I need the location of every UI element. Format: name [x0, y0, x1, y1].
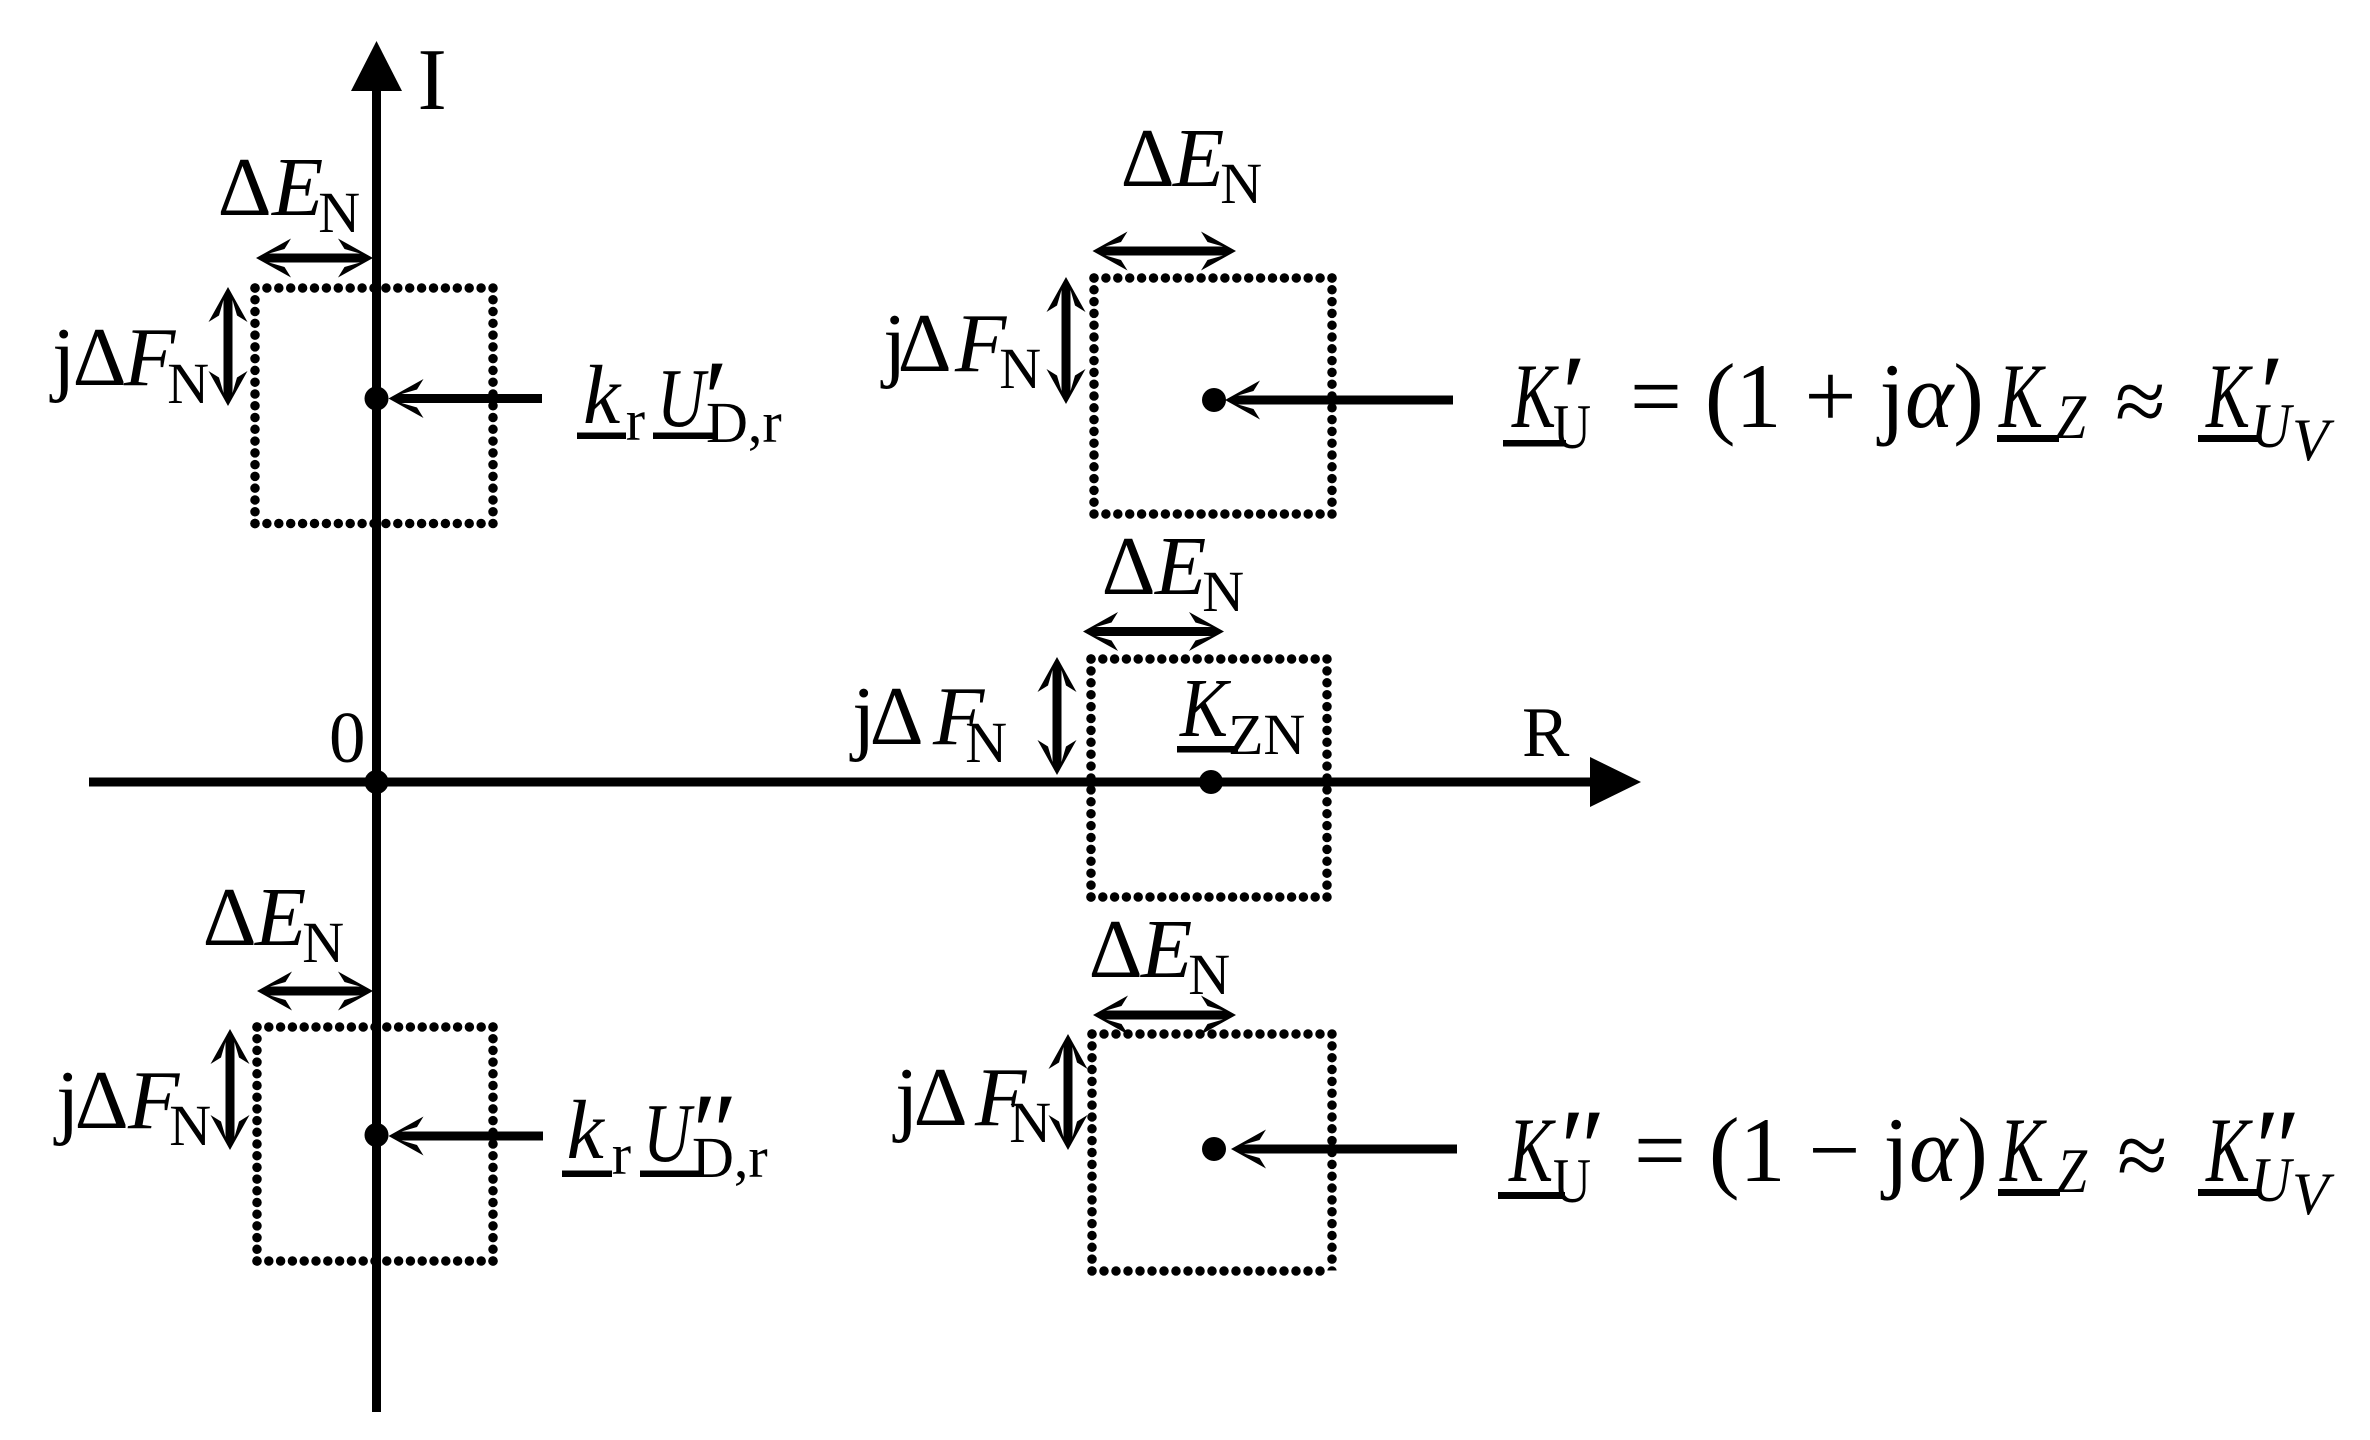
svg-text:N: N [167, 351, 209, 416]
j Delta F_N double arrow middle [1038, 657, 1077, 775]
svg-text:D,r: D,r [692, 1125, 768, 1190]
Delta E_N label middle [1102, 520, 1245, 624]
point k_r U''_D,r on I axis [365, 1123, 389, 1147]
svg-text:K: K [1511, 345, 1560, 447]
svg-text:Δ: Δ [914, 1051, 968, 1144]
svg-text:Z: Z [2057, 1135, 2088, 1206]
svg-text:U: U [2251, 390, 2294, 461]
leader arrow to top-left point [389, 379, 543, 418]
dotted box top-left [255, 288, 493, 524]
j Delta F_N double arrow top-middle [1047, 277, 1086, 404]
dotted box middle (K_ZN) [1091, 659, 1327, 897]
label K_ZN inside middle box [1177, 662, 1305, 767]
dotted box bottom-left [257, 1027, 493, 1261]
Delta E_N double arrow middle [1083, 612, 1224, 651]
j Delta F_N double arrow bottom-left [211, 1029, 250, 1150]
formula K'_U = (1 + j alpha) K_Z approx K'_UV [1503, 333, 2335, 473]
Delta E_N label top-left [218, 141, 361, 245]
svg-text:N: N [169, 1093, 211, 1158]
Delta E_N double arrow top-left [256, 239, 373, 278]
leader arrow to bottom-left point [389, 1117, 544, 1156]
svg-text:E: E [1140, 903, 1192, 996]
svg-text:Δ: Δ [1089, 903, 1143, 996]
svg-text:V: V [2292, 407, 2335, 473]
point k_r U'_D,r on I axis [365, 387, 389, 411]
svg-text:N: N [1202, 559, 1244, 624]
point K''_U [1202, 1137, 1226, 1161]
svg-text:U: U [1553, 1145, 1591, 1216]
j Delta F_N label bottom-left [53, 1054, 211, 1158]
svg-text:j: j [49, 311, 75, 404]
svg-text:N: N [302, 910, 344, 975]
svg-text:= (1 − jα): = (1 − jα) [1634, 1099, 1988, 1201]
svg-text:Δ: Δ [73, 311, 127, 404]
svg-text:N: N [1009, 1090, 1051, 1155]
Delta E_N double arrow bottom-middle [1093, 996, 1236, 1035]
svg-text:Z: Z [2056, 381, 2087, 452]
svg-text:= (1 + jα): = (1 + jα) [1630, 345, 1984, 447]
origin dot [365, 770, 389, 794]
svg-text:Δ: Δ [870, 670, 924, 763]
leader arrow to bottom-right point [1231, 1130, 1457, 1169]
point K'_U [1202, 388, 1226, 412]
j Delta F_N label top-middle [880, 297, 1041, 401]
svg-text:≈: ≈ [2115, 350, 2166, 452]
svg-text:r: r [626, 388, 645, 453]
svg-text:U: U [2251, 1144, 2294, 1215]
svg-text:E: E [1172, 112, 1224, 205]
Delta E_N label bottom-middle [1089, 903, 1231, 1007]
svg-text:N: N [318, 180, 360, 245]
svg-text:r: r [612, 1122, 631, 1187]
j Delta F_N double arrow top-left [209, 287, 248, 406]
Delta E_N double arrow bottom-left [257, 972, 373, 1011]
R axis (real axis) [89, 757, 1641, 807]
j Delta F_N label top-left [49, 311, 209, 416]
j Delta F_N double arrow bottom-right [1049, 1034, 1088, 1150]
dotted box bottom-right [1092, 1034, 1332, 1271]
svg-text:Δ: Δ [218, 141, 272, 234]
svg-text:U: U [657, 352, 709, 445]
svg-text:K: K [2205, 1099, 2254, 1201]
leader arrow to top-middle point [1225, 381, 1453, 420]
svg-text:U: U [1553, 391, 1591, 462]
j Delta F_N label middle [849, 670, 1007, 775]
svg-text:R: R [1522, 694, 1570, 772]
svg-text:K: K [1999, 1099, 2048, 1201]
svg-text:k: k [583, 349, 622, 442]
svg-text:ZN: ZN [1228, 702, 1305, 767]
svg-text:K: K [1998, 345, 2047, 447]
j Delta F_N label bottom-right [892, 1051, 1051, 1155]
svg-text:N: N [1188, 942, 1230, 1007]
svg-text:N: N [965, 710, 1007, 775]
svg-text:Δ: Δ [1102, 520, 1156, 613]
svg-text:Δ: Δ [1121, 112, 1175, 205]
label k_r U''_D,r [562, 1071, 768, 1193]
svg-text:E: E [254, 871, 306, 964]
svg-text:≈: ≈ [2117, 1104, 2168, 1206]
svg-text:K: K [1179, 662, 1231, 755]
svg-text:N: N [999, 336, 1041, 401]
label k_r U'_D,r [577, 338, 782, 460]
formula K''_U = (1 - j alpha) K_Z approx K''_UV [1498, 1087, 2335, 1227]
svg-text:I: I [418, 32, 447, 129]
Delta E_N double arrow top-middle [1093, 232, 1237, 271]
svg-text:V: V [2292, 1161, 2335, 1227]
svg-text:E: E [1154, 520, 1206, 613]
svg-text:0: 0 [329, 697, 366, 778]
svg-text:K: K [2205, 345, 2254, 447]
svg-text:K: K [1508, 1099, 1557, 1201]
I axis (imaginary axis) [351, 41, 402, 1412]
svg-text:k: k [567, 1084, 606, 1177]
svg-text:D,r: D,r [706, 390, 782, 455]
Delta E_N label bottom-left [203, 871, 345, 975]
svg-text:E: E [271, 141, 323, 234]
svg-text:N: N [1220, 151, 1262, 216]
point K_ZN on R axis [1199, 770, 1223, 794]
svg-text:Δ: Δ [898, 297, 952, 390]
svg-text:U: U [643, 1087, 695, 1180]
Delta E_N label top-middle [1121, 112, 1263, 216]
svg-text:Δ: Δ [203, 871, 257, 964]
dotted box top-middle [1094, 278, 1332, 514]
svg-text:Δ: Δ [75, 1054, 129, 1147]
